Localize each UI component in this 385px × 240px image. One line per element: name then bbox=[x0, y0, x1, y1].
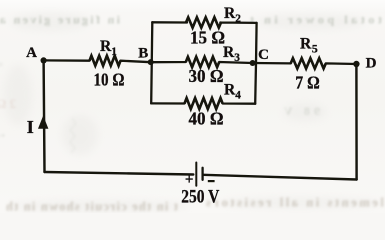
svg-text:·•: ·• bbox=[0, 131, 5, 142]
svg-text:+: + bbox=[185, 172, 194, 188]
svg-text:B: B bbox=[138, 46, 148, 62]
svg-text:D: D bbox=[366, 56, 377, 72]
svg-text:=: = bbox=[0, 59, 3, 71]
svg-text:10 Ω: 10 Ω bbox=[94, 70, 125, 90]
svg-text:15 Ω: 15 Ω bbox=[190, 28, 225, 48]
svg-text:40 Ω: 40 Ω bbox=[189, 109, 224, 129]
svg-text:250 V: 250 V bbox=[181, 186, 219, 207]
svg-text:Ω £: Ω £ bbox=[0, 96, 17, 111]
svg-text:A: A bbox=[26, 45, 37, 61]
svg-text:7 Ω: 7 Ω bbox=[295, 73, 320, 93]
svg-text:30 Ω: 30 Ω bbox=[189, 66, 224, 86]
svg-text:I: I bbox=[27, 117, 34, 137]
svg-text:C: C bbox=[258, 47, 269, 63]
